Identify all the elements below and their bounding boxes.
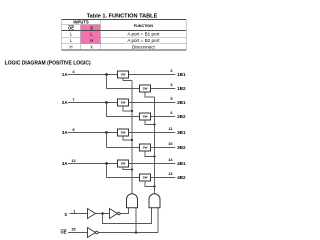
- svg-text:SW: SW: [121, 101, 126, 105]
- svg-text:4B1: 4B1: [177, 161, 186, 166]
- svg-text:4A: 4A: [62, 161, 68, 166]
- svg-text:10: 10: [168, 141, 172, 146]
- svg-text:OE: OE: [61, 229, 67, 234]
- svg-text:OE: OE: [68, 25, 74, 30]
- svg-text:S: S: [90, 25, 93, 30]
- svg-text:SW: SW: [143, 87, 148, 91]
- svg-text:SW: SW: [143, 176, 148, 180]
- svg-text:SW: SW: [143, 146, 148, 150]
- svg-text:3B2: 3B2: [177, 145, 186, 150]
- svg-text:A port = B1 port: A port = B1 port: [127, 31, 160, 36]
- svg-text:S: S: [64, 212, 67, 217]
- svg-text:2A: 2A: [62, 100, 68, 105]
- svg-text:3A: 3A: [62, 130, 68, 135]
- svg-text:1B2: 1B2: [177, 86, 186, 91]
- svg-text:2B1: 2B1: [177, 100, 186, 105]
- svg-text:4B2: 4B2: [177, 175, 186, 180]
- svg-text:2B2: 2B2: [177, 114, 186, 119]
- svg-text:7: 7: [72, 97, 74, 102]
- svg-text:3B1: 3B1: [177, 130, 186, 135]
- svg-text:1A: 1A: [62, 72, 68, 77]
- svg-text:H: H: [90, 38, 93, 43]
- svg-text:FUNCTION: FUNCTION: [134, 24, 153, 28]
- svg-text:SW: SW: [121, 73, 126, 77]
- svg-text:INPUTS: INPUTS: [73, 20, 89, 25]
- svg-text:X: X: [90, 44, 93, 49]
- svg-text:H: H: [69, 44, 72, 49]
- svg-text:Disconnect: Disconnect: [132, 44, 155, 49]
- svg-text:SW: SW: [121, 162, 126, 166]
- svg-text:A port = B2 port: A port = B2 port: [127, 38, 160, 43]
- svg-text:LOGIC DIAGRAM (POSITIVE LOGIC): LOGIC DIAGRAM (POSITIVE LOGIC): [5, 60, 91, 66]
- svg-text:SW: SW: [143, 115, 148, 119]
- svg-text:Table 1. FUNCTION TABLE: Table 1. FUNCTION TABLE: [87, 13, 158, 19]
- svg-text:SW: SW: [121, 131, 126, 135]
- svg-text:1B1: 1B1: [177, 72, 186, 77]
